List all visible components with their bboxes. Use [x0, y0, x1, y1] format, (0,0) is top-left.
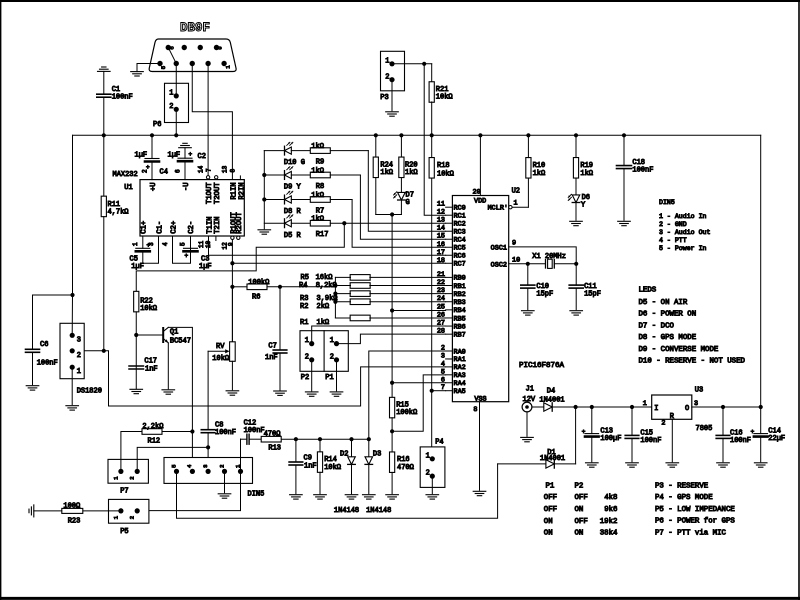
- svg-text:1µF: 1µF: [131, 263, 144, 271]
- svg-text:20: 20: [473, 188, 481, 196]
- svg-text:U2: U2: [512, 187, 520, 195]
- svg-text:C1-: C1-: [156, 221, 164, 234]
- svg-text:R7: R7: [316, 208, 324, 216]
- svg-text:U1: U1: [124, 184, 132, 192]
- svg-text:R10: R10: [533, 162, 546, 170]
- svg-text:T1OUT: T1OUT: [206, 182, 214, 204]
- svg-text:14: 14: [437, 225, 445, 233]
- svg-text:RC7: RC7: [454, 261, 466, 269]
- svg-text:J1: J1: [526, 386, 534, 394]
- svg-text:+: +: [751, 428, 755, 435]
- svg-text:11: 11: [198, 240, 205, 248]
- svg-text:2: 2: [218, 465, 225, 468]
- svg-text:2kΩ: 2kΩ: [317, 303, 330, 311]
- svg-text:1nF: 1nF: [145, 366, 158, 374]
- svg-text:C2+: C2+: [170, 221, 178, 234]
- svg-text:+: +: [147, 242, 151, 249]
- svg-text:6: 6: [169, 46, 176, 49]
- svg-text:2: 2: [661, 419, 665, 427]
- svg-text:1: 1: [169, 90, 173, 98]
- svg-text:OFF: OFF: [544, 494, 557, 502]
- svg-text:14: 14: [197, 165, 204, 173]
- svg-text:+: +: [189, 151, 193, 158]
- svg-text:1: 1: [643, 400, 647, 408]
- svg-text:8,2kΩ: 8,2kΩ: [316, 282, 337, 290]
- svg-text:R4: R4: [299, 282, 307, 290]
- svg-text:D10 G: D10 G: [284, 159, 305, 167]
- svg-text:100nF: 100nF: [112, 94, 133, 102]
- svg-text:1µF: 1µF: [135, 152, 148, 160]
- svg-text:8: 8: [473, 406, 477, 414]
- svg-text:P3 - RESERVE: P3 - RESERVE: [655, 482, 709, 490]
- svg-text:R13: R13: [268, 444, 281, 452]
- svg-text:5 - Power In: 5 - Power In: [659, 245, 707, 252]
- svg-text:7: 7: [205, 168, 212, 172]
- svg-text:2: 2: [77, 352, 81, 360]
- svg-text:15pF: 15pF: [584, 291, 601, 299]
- svg-text:R2OUT: R2OUT: [236, 212, 244, 234]
- svg-text:1kΩ: 1kΩ: [311, 216, 324, 224]
- svg-text:DB9F: DB9F: [180, 21, 210, 35]
- svg-text:+U: +U: [150, 182, 158, 191]
- svg-text:D8 - GPS MODE: D8 - GPS MODE: [639, 334, 697, 342]
- svg-text:OFF: OFF: [575, 518, 588, 526]
- svg-text:470Ω: 470Ω: [397, 464, 414, 472]
- svg-text:4,7kΩ: 4,7kΩ: [108, 209, 129, 217]
- svg-text:C2-: C2-: [188, 221, 196, 234]
- svg-text:RC0: RC0: [454, 205, 466, 213]
- svg-text:R2IN: R2IN: [238, 182, 246, 199]
- svg-text:ON: ON: [575, 530, 584, 538]
- svg-text:C7: C7: [268, 342, 276, 350]
- svg-text:1kΩ: 1kΩ: [380, 169, 393, 177]
- svg-text:MAX232: MAX232: [113, 171, 138, 179]
- svg-text:2: 2: [330, 353, 334, 361]
- svg-text:10kΩ: 10kΩ: [212, 355, 229, 363]
- svg-text:11: 11: [437, 201, 445, 209]
- svg-text:DIN5: DIN5: [248, 490, 265, 498]
- svg-text:3: 3: [202, 465, 209, 468]
- svg-text:D5 - ON AIR: D5 - ON AIR: [639, 299, 688, 307]
- svg-text:Q1: Q1: [170, 329, 178, 337]
- svg-text:1N4001: 1N4001: [539, 397, 564, 405]
- svg-text:RB3: RB3: [454, 299, 466, 307]
- svg-text:1kΩ: 1kΩ: [311, 167, 324, 175]
- svg-text:RA4: RA4: [454, 380, 466, 388]
- svg-text:7: 7: [441, 384, 445, 392]
- svg-text:1nF: 1nF: [265, 354, 278, 362]
- svg-text:3: 3: [441, 352, 445, 360]
- svg-text:P6 - POWER for GPS: P6 - POWER for GPS: [655, 518, 735, 526]
- svg-text:VDD: VDD: [474, 197, 486, 205]
- svg-text:C2: C2: [198, 153, 206, 161]
- svg-text:6: 6: [441, 376, 445, 384]
- svg-text:R6: R6: [252, 294, 260, 302]
- svg-text:RV: RV: [216, 343, 225, 351]
- svg-text:P4: P4: [435, 438, 443, 446]
- svg-text:P5: P5: [120, 528, 128, 536]
- svg-text:2 - GND: 2 - GND: [659, 221, 687, 228]
- svg-text:C1+: C1+: [141, 221, 149, 234]
- svg-text:C4: C4: [160, 169, 168, 177]
- svg-text:RB6: RB6: [454, 323, 466, 331]
- svg-text:C9: C9: [304, 454, 312, 462]
- svg-text:2: 2: [305, 353, 309, 361]
- svg-text:5: 5: [441, 368, 445, 376]
- svg-text:G: G: [406, 199, 410, 207]
- svg-text:D5 R: D5 R: [284, 232, 302, 240]
- svg-text:17: 17: [437, 249, 445, 257]
- svg-text:R16: R16: [397, 456, 410, 464]
- svg-text:1nF: 1nF: [304, 462, 317, 470]
- svg-text:+: +: [185, 253, 189, 260]
- svg-text:1: 1: [132, 242, 139, 246]
- svg-text:D4: D4: [547, 387, 555, 395]
- svg-text:1: 1: [385, 57, 389, 65]
- svg-text:16: 16: [437, 241, 445, 249]
- svg-text:T2IN: T2IN: [214, 217, 222, 234]
- svg-text:R1IN: R1IN: [230, 182, 238, 199]
- svg-text:1µF: 1µF: [199, 263, 212, 271]
- svg-text:R23: R23: [68, 517, 81, 525]
- svg-text:1: 1: [330, 337, 334, 345]
- svg-text:2: 2: [129, 476, 136, 479]
- svg-text:RB5: RB5: [454, 315, 466, 323]
- svg-text:RB0: RB0: [454, 275, 466, 283]
- svg-text:RB4: RB4: [454, 307, 466, 315]
- svg-text:P5 - LOW IMPEDANCE: P5 - LOW IMPEDANCE: [655, 506, 735, 514]
- svg-text:100nF: 100nF: [730, 437, 751, 445]
- svg-text:LEDS: LEDS: [639, 287, 657, 295]
- svg-text:RC5: RC5: [454, 245, 466, 253]
- svg-text:P6: P6: [153, 121, 161, 129]
- svg-text:RB1: RB1: [454, 283, 466, 291]
- svg-text:R19: R19: [580, 162, 593, 170]
- svg-text:R3: R3: [300, 295, 308, 303]
- svg-text:100Ω: 100Ω: [63, 502, 80, 510]
- svg-text:C17: C17: [144, 358, 157, 366]
- svg-text:13: 13: [437, 217, 445, 225]
- svg-text:9k6: 9k6: [604, 506, 617, 514]
- svg-text:RA2: RA2: [454, 364, 466, 372]
- svg-text:R8: R8: [316, 183, 324, 191]
- svg-text:2: 2: [426, 470, 430, 478]
- svg-text:OFF: OFF: [575, 494, 588, 502]
- svg-text:ON: ON: [544, 518, 553, 526]
- svg-text:P7: P7: [120, 487, 128, 495]
- svg-text:PIC16F876A: PIC16F876A: [519, 362, 565, 370]
- svg-text:8: 8: [230, 169, 237, 173]
- svg-text:R9: R9: [316, 159, 324, 167]
- svg-text:12V: 12V: [523, 396, 536, 404]
- svg-text:P4 - GPS MODE: P4 - GPS MODE: [655, 494, 713, 502]
- svg-text:I: I: [654, 405, 658, 413]
- svg-text:RA5: RA5: [454, 388, 466, 396]
- svg-text:1N4148: 1N4148: [366, 507, 391, 515]
- svg-text:100nF: 100nF: [215, 429, 236, 437]
- svg-text:P7 - PTT via MIC: P7 - PTT via MIC: [655, 530, 727, 538]
- svg-text:13: 13: [222, 165, 229, 173]
- svg-text:D9 - CONVERSE MODE: D9 - CONVERSE MODE: [639, 346, 719, 354]
- svg-text:5: 5: [170, 465, 177, 468]
- svg-text:2,2kΩ: 2,2kΩ: [142, 423, 163, 431]
- svg-text:10kΩ: 10kΩ: [140, 305, 157, 313]
- svg-text:2: 2: [129, 516, 136, 519]
- svg-text:P1: P1: [546, 482, 555, 490]
- svg-text:1kΩ: 1kΩ: [580, 170, 593, 178]
- svg-text:25: 25: [437, 303, 445, 311]
- svg-text:D10 - RESERVE - NOT USED: D10 - RESERVE - NOT USED: [639, 358, 746, 366]
- svg-text:1kΩ: 1kΩ: [405, 169, 418, 177]
- svg-text:100µF: 100µF: [600, 435, 621, 443]
- svg-text:1µF: 1µF: [168, 152, 181, 160]
- svg-text:10kΩ: 10kΩ: [324, 464, 341, 472]
- svg-text:5: 5: [160, 66, 167, 69]
- svg-text:RA1: RA1: [454, 356, 466, 364]
- svg-text:5: 5: [179, 242, 186, 246]
- svg-text:1N4001: 1N4001: [540, 455, 565, 463]
- svg-text:P1: P1: [325, 374, 333, 382]
- svg-text:MCLR': MCLR': [488, 205, 508, 213]
- svg-text:BC547: BC547: [170, 338, 191, 346]
- svg-text:19k2: 19k2: [600, 518, 618, 526]
- svg-text:RC3: RC3: [454, 229, 466, 237]
- svg-text:RC4: RC4: [454, 237, 466, 245]
- svg-text:3 - Audio Out: 3 - Audio Out: [659, 229, 710, 236]
- svg-text:R18: R18: [437, 162, 450, 170]
- svg-text:10kΩ: 10kΩ: [436, 93, 453, 101]
- svg-text:X1 20MHz: X1 20MHz: [532, 253, 566, 261]
- svg-text:12: 12: [437, 209, 445, 217]
- svg-text:1kΩ: 1kΩ: [311, 143, 324, 151]
- svg-text:22µF: 22µF: [768, 435, 785, 443]
- svg-text:+: +: [582, 428, 586, 435]
- svg-text:RC6: RC6: [454, 253, 466, 261]
- svg-text:R1: R1: [300, 319, 308, 327]
- svg-text:ON: ON: [544, 530, 553, 538]
- svg-text:P3: P3: [380, 94, 388, 102]
- svg-text:7805: 7805: [696, 425, 713, 433]
- svg-text:RA0: RA0: [454, 348, 466, 356]
- svg-text:3,9kΩ: 3,9kΩ: [317, 295, 338, 303]
- svg-text:16kΩ: 16kΩ: [316, 274, 333, 282]
- svg-text:4k8: 4k8: [604, 494, 617, 502]
- svg-text:1: 1: [514, 200, 518, 208]
- svg-text:P2: P2: [575, 482, 584, 490]
- svg-text:9: 9: [217, 46, 224, 49]
- svg-text:OSC1: OSC1: [491, 244, 507, 252]
- svg-text:ON: ON: [575, 506, 584, 514]
- svg-text:D9 Y: D9 Y: [284, 184, 302, 192]
- svg-text:C6: C6: [40, 341, 48, 349]
- svg-text:RB2: RB2: [454, 291, 466, 299]
- svg-text:15: 15: [437, 233, 445, 241]
- svg-text:100kΩ: 100kΩ: [396, 409, 417, 417]
- svg-text:1: 1: [77, 368, 81, 376]
- svg-text:4 - PTT: 4 - PTT: [659, 237, 687, 244]
- svg-text:1 - Audio In: 1 - Audio In: [659, 213, 707, 220]
- svg-text:1: 1: [305, 337, 309, 345]
- svg-text:D3: D3: [373, 450, 381, 458]
- svg-text:3: 3: [77, 336, 81, 344]
- svg-text:DIN5: DIN5: [659, 199, 675, 206]
- svg-text:T2OUT: T2OUT: [214, 182, 222, 204]
- svg-text:U3: U3: [695, 386, 703, 394]
- svg-text:R12: R12: [148, 437, 161, 445]
- svg-text:100nF: 100nF: [37, 359, 58, 367]
- svg-text:RC2: RC2: [454, 221, 466, 229]
- svg-text:R5: R5: [301, 274, 309, 282]
- svg-text:100nF: 100nF: [632, 167, 653, 175]
- svg-text:100nF: 100nF: [640, 437, 661, 445]
- svg-text:D7 - DCO: D7 - DCO: [639, 322, 675, 330]
- svg-text:15pF: 15pF: [536, 291, 553, 299]
- svg-text:4: 4: [162, 242, 169, 246]
- svg-text:VSS: VSS: [474, 396, 486, 404]
- svg-text:R17: R17: [316, 231, 329, 239]
- svg-text:9: 9: [228, 242, 235, 246]
- svg-text:O: O: [685, 405, 689, 413]
- svg-text:1N4148: 1N4148: [334, 507, 359, 515]
- svg-text:-U: -U: [183, 182, 191, 191]
- svg-text:2: 2: [385, 73, 389, 81]
- svg-text:2: 2: [169, 103, 173, 111]
- svg-text:10: 10: [512, 256, 520, 264]
- svg-text:DS1820: DS1820: [77, 388, 102, 396]
- svg-text:10kΩ: 10kΩ: [437, 170, 454, 178]
- svg-text:38k4: 38k4: [600, 530, 618, 538]
- svg-text:470Ω: 470Ω: [264, 430, 281, 438]
- svg-text:9: 9: [512, 239, 516, 247]
- svg-text:D2: D2: [340, 450, 348, 458]
- svg-text:RA3: RA3: [454, 372, 466, 380]
- svg-text:D6 - POWER ON: D6 - POWER ON: [639, 311, 697, 319]
- svg-text:18: 18: [437, 257, 445, 265]
- svg-text:RB7: RB7: [454, 331, 466, 339]
- svg-text:P2: P2: [301, 374, 309, 382]
- svg-text:R2: R2: [300, 303, 308, 311]
- svg-text:2: 2: [141, 169, 148, 173]
- svg-text:100nF: 100nF: [244, 427, 265, 435]
- svg-text:RC1: RC1: [454, 213, 466, 221]
- svg-text:R14: R14: [324, 456, 337, 464]
- svg-text:6: 6: [174, 169, 181, 173]
- svg-text:OSC2: OSC2: [491, 261, 507, 269]
- svg-text:1: 1: [426, 452, 430, 460]
- svg-text:100kΩ: 100kΩ: [248, 279, 269, 287]
- svg-text:OFF: OFF: [544, 506, 557, 514]
- svg-text:1kΩ: 1kΩ: [311, 192, 324, 200]
- svg-text:1kΩ: 1kΩ: [533, 170, 546, 178]
